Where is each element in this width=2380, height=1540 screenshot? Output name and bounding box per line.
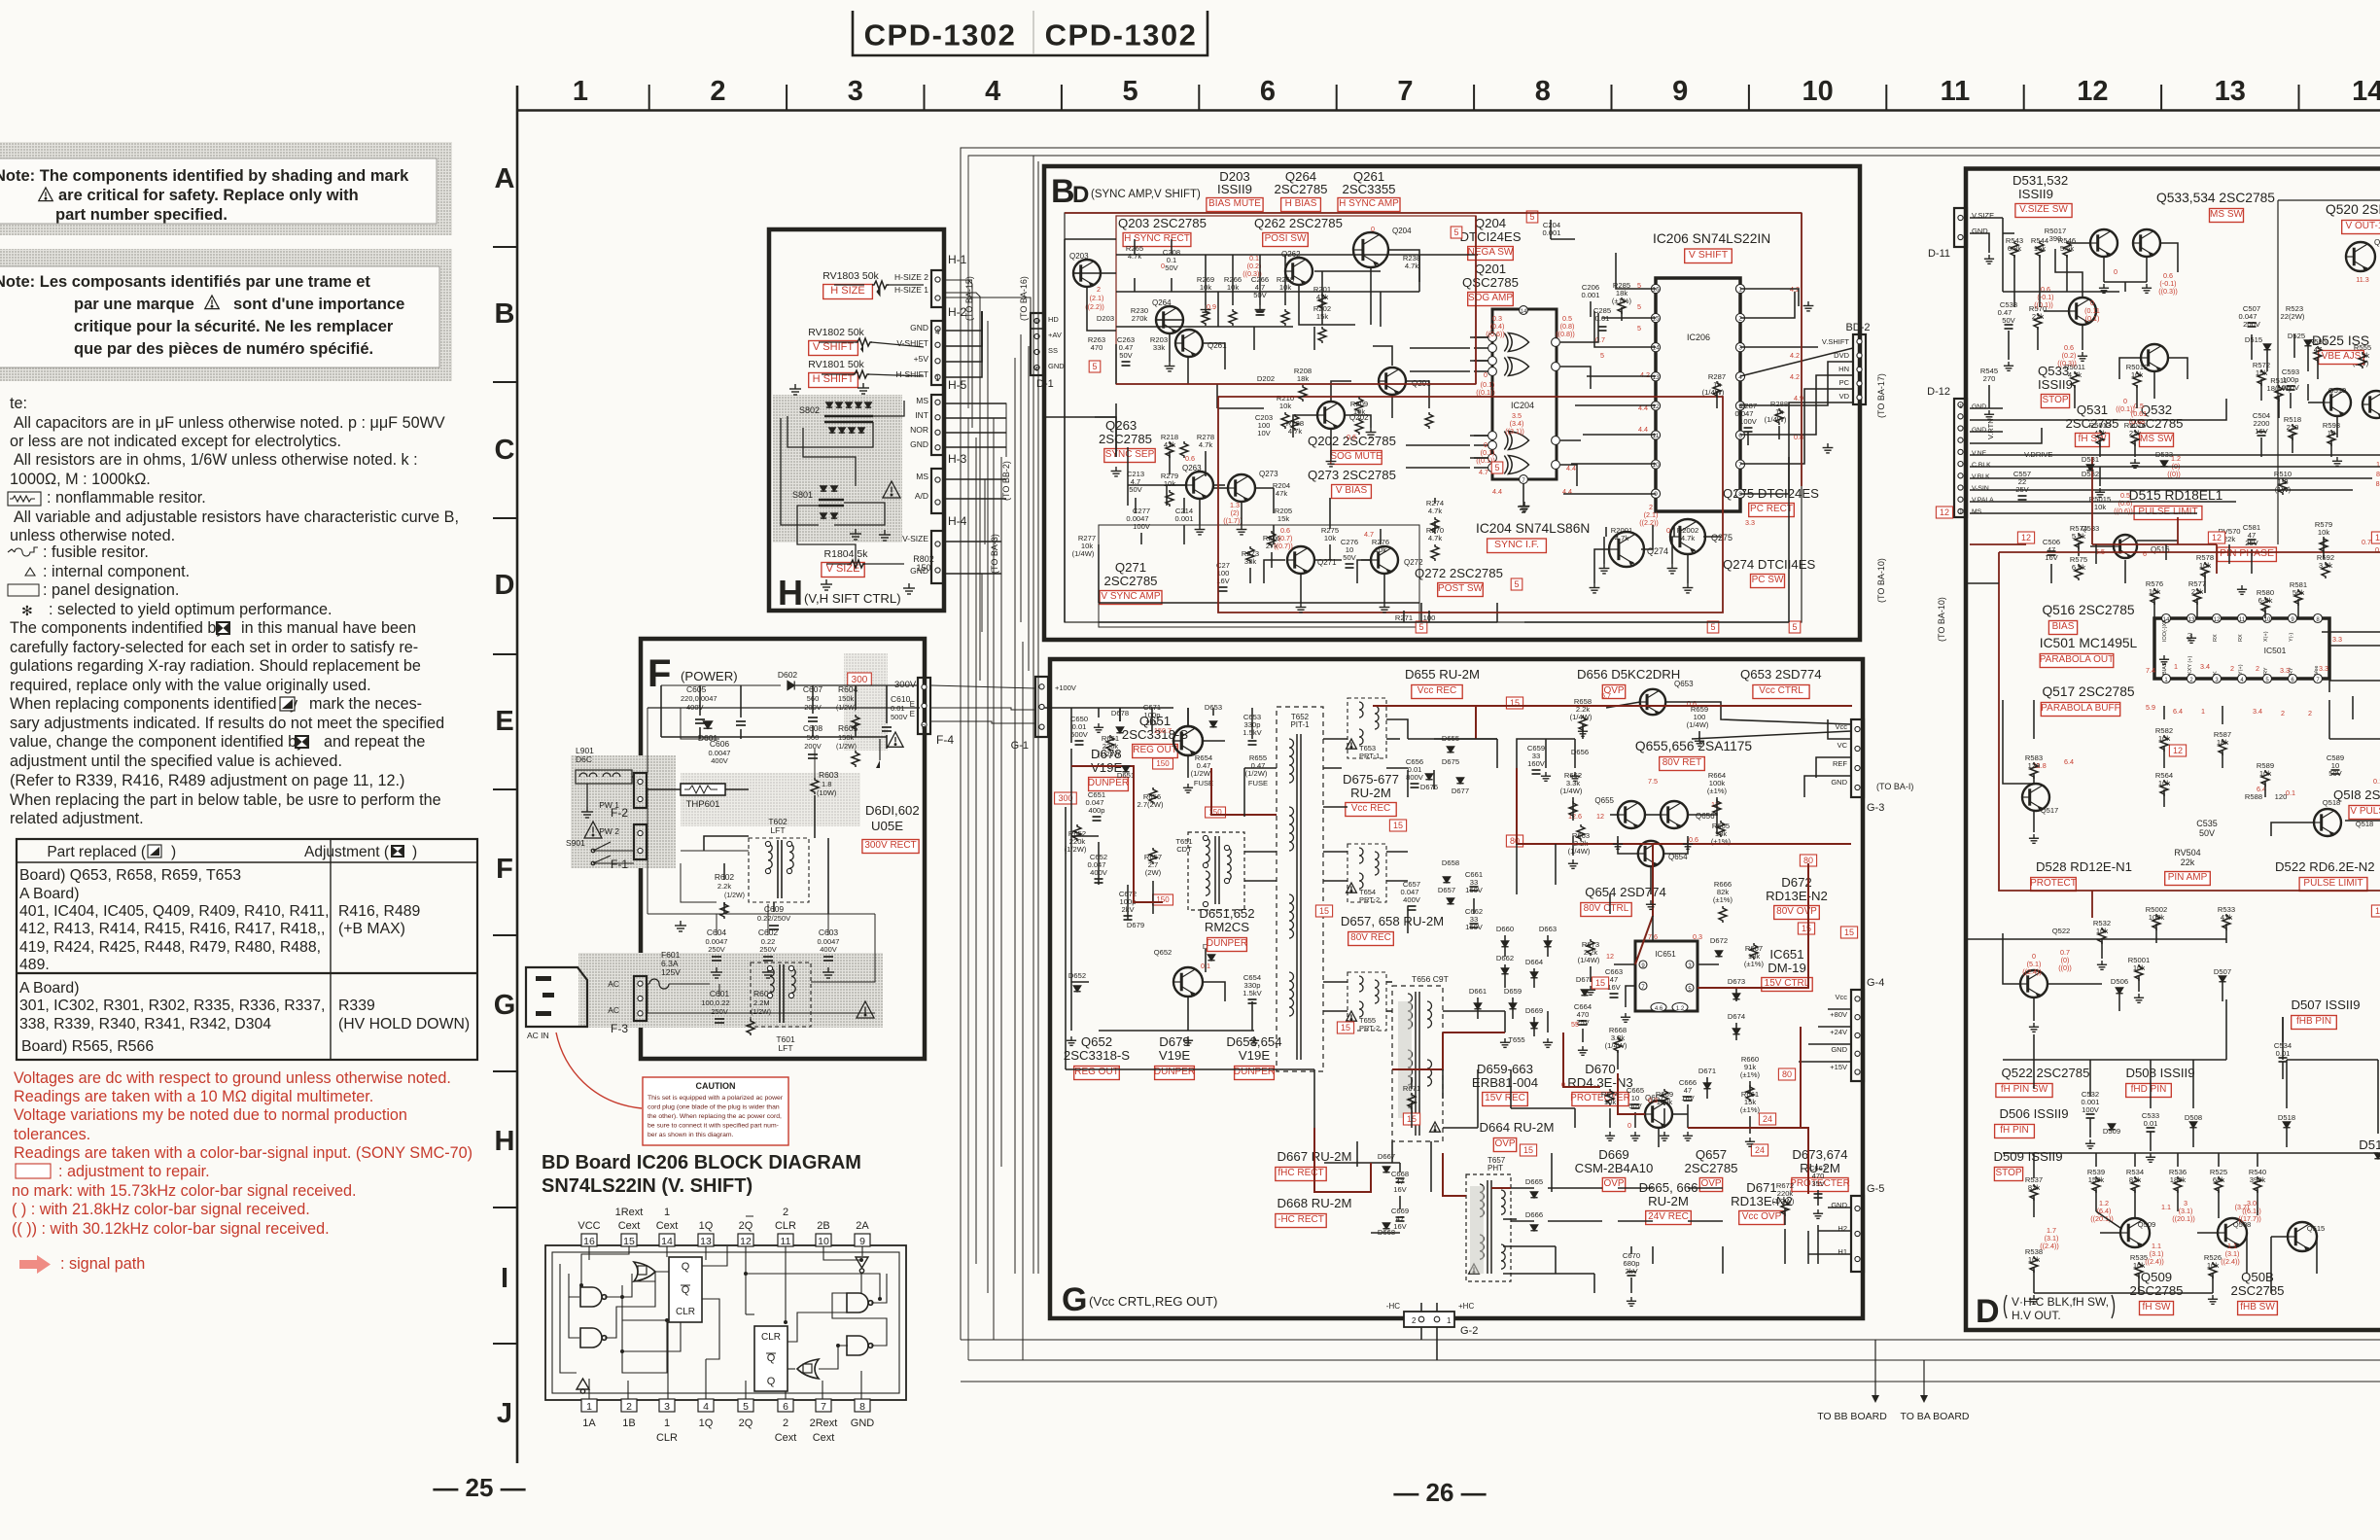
svg-text:+80V: +80V [1830, 1010, 1847, 1019]
svg-text:RV504: RV504 [2174, 848, 2200, 857]
svg-text:(3.7): (3.7) [2235, 1203, 2250, 1211]
IC206 OR gate 2 [797, 1359, 819, 1379]
svg-text:2: 2 [1412, 1316, 1417, 1325]
svg-text:401, IC404, IC405, Q409, R409,: 401, IC404, IC405, Q409, R409, R410, R41… [19, 903, 329, 920]
svg-text:V.SHIFT: V.SHIFT [1822, 337, 1849, 346]
svg-text:(1/4W): (1/4W) [1072, 549, 1095, 558]
svg-text:6: 6 [2143, 549, 2147, 558]
svg-text:no mark: with 15.73kHz color-b: no mark: with 15.73kHz color-bar signal … [12, 1182, 356, 1200]
svg-text:G-3: G-3 [1867, 802, 1884, 814]
svg-text:R339: R339 [338, 997, 375, 1014]
svg-text:2SC2785: 2SC2785 [2231, 1283, 2285, 1298]
svg-text:(1/4W): (1/4W) [1570, 713, 1592, 721]
svg-text:IC206: IC206 [1687, 332, 1710, 342]
svg-text:When replacing components iden: When replacing components identified by [10, 695, 298, 713]
svg-text:J: J [497, 1398, 512, 1429]
svg-text:DM-19: DM-19 [1767, 961, 1806, 975]
svg-text:B: B [1051, 173, 1075, 210]
svg-text:POST SW: POST SW [1438, 583, 1483, 594]
svg-text:D522 RD6.2E-N2: D522 RD6.2E-N2 [2275, 859, 2375, 874]
svg-text:GND: GND [910, 566, 928, 576]
svg-text:D202: D202 [1257, 374, 1275, 383]
svg-text:12: 12 [1940, 507, 1949, 517]
svg-text:AC: AC [608, 979, 619, 989]
svg-text:Readings are taken with a colo: Readings are taken with a color-bar-sign… [14, 1144, 472, 1162]
svg-text:SN74LS22IN (V. SHIFT): SN74LS22IN (V. SHIFT) [542, 1175, 752, 1197]
svg-text:250V: 250V [711, 1007, 728, 1016]
svg-text:: internal component.: : internal component. [43, 563, 190, 580]
svg-text:(0.1): (0.1) [2085, 314, 2100, 323]
svg-text:Q533: Q533 [2082, 524, 2100, 533]
svg-text:Q520: Q520 [2374, 238, 2380, 247]
svg-text:Q5I8 2SC27: Q5I8 2SC27 [2333, 787, 2380, 802]
IC206 inverter triangles [856, 1257, 868, 1273]
svg-text:1: 1 [586, 1401, 592, 1413]
svg-text:G: G [1062, 1281, 1087, 1318]
svg-text:V19E: V19E [1239, 1048, 1270, 1063]
svg-text:Cext: Cext [618, 1220, 641, 1232]
svg-text:CLR: CLR [761, 1332, 781, 1343]
svg-text:16: 16 [1652, 287, 1660, 294]
svg-text:0.001: 0.001 [1581, 291, 1599, 299]
svg-text:(TO BA-10): (TO BA-10) [1876, 558, 1886, 603]
svg-text:Q273: Q273 [1259, 470, 1278, 478]
svg-text:4.7: 4.7 [1364, 530, 1374, 539]
svg-text:(1/4W): (1/4W) [1765, 415, 1787, 424]
svg-text:1000Ω, M : 1000kΩ.: 1000Ω, M : 1000kΩ. [10, 471, 151, 488]
svg-text:VD: VD [1839, 392, 1850, 401]
svg-text:12: 12 [1596, 812, 1604, 821]
svg-text:H-SIZE 1: H-SIZE 1 [894, 285, 928, 295]
T653 PRT-1 transformer [1347, 698, 1386, 758]
F bottom wires [647, 1012, 875, 1014]
svg-text:Cext: Cext [813, 1432, 835, 1444]
svg-text:16: 16 [583, 1236, 595, 1247]
svg-text:1: 1 [1034, 318, 1038, 325]
svg-text:Y(+): Y(+) [2238, 664, 2244, 675]
svg-text:V-SIN: V-SIN [1972, 485, 1989, 492]
svg-text:10k: 10k [2094, 503, 2106, 511]
svg-text:2: 2 [2308, 709, 2312, 717]
svg-text:Q531: Q531 [2077, 402, 2108, 417]
svg-text:AC IN: AC IN [527, 1031, 549, 1040]
svg-text:CDT: CDT [1176, 845, 1192, 854]
G transformers [1277, 707, 1323, 1071]
svg-text:Cext: Cext [656, 1220, 679, 1232]
svg-text:RY: RY [2263, 667, 2269, 675]
svg-text:3: 3 [848, 76, 863, 107]
svg-text:4.4: 4.4 [1492, 487, 1502, 496]
svg-text:+HC: +HC [1458, 1302, 1474, 1311]
svg-text:QSC2785: QSC2785 [1462, 275, 1519, 290]
svg-text:5: 5 [1710, 622, 1715, 632]
svg-text:): ) [171, 844, 176, 860]
svg-text:V.RTN: V.RTN [1986, 418, 1995, 439]
svg-text:GND: GND [1972, 403, 1986, 410]
svg-text:D665: D665 [1525, 1177, 1543, 1186]
svg-text:15V REC: 15V REC [1485, 1093, 1525, 1103]
svg-text:301, IC302, R301, R302, R335,: 301, IC302, R301, R302, R335, R336, R337… [19, 997, 325, 1014]
svg-text:AC: AC [608, 1005, 619, 1015]
svg-text:BD Board IC206 BLOCK DIAGRAM: BD Board IC206 BLOCK DIAGRAM [542, 1152, 861, 1173]
warning triangle F bottom [857, 1001, 874, 1018]
svg-text:H SHIFT: H SHIFT [813, 373, 855, 385]
svg-text:VC: VC [1837, 741, 1848, 750]
svg-text:SOG MUTE: SOG MUTE [1330, 451, 1382, 462]
svg-text:24: 24 [1763, 1114, 1772, 1124]
svg-text:MS: MS [916, 472, 928, 481]
svg-text:All capacitors are in μF unles: All capacitors are in μF unless otherwis… [14, 414, 445, 432]
svg-text:1Rext: 1Rext [615, 1207, 644, 1218]
svg-text:par une marque: par une marque [74, 296, 194, 313]
D602 diode top [787, 682, 794, 690]
svg-text:R588: R588 [2245, 792, 2262, 801]
svg-text:MS: MS [916, 396, 928, 405]
svg-text:2: 2 [1097, 285, 1101, 294]
svg-text:G-4: G-4 [1867, 977, 1884, 989]
svg-text:— 25 —: — 25 — [433, 1473, 525, 1502]
svg-text:2Q: 2Q [739, 1417, 753, 1429]
svg-text:50V: 50V [2002, 316, 2015, 325]
svg-text:2SC3318-S: 2SC3318-S [1064, 1048, 1130, 1063]
svg-text:PIN PHASE: PIN PHASE [2220, 547, 2274, 559]
svg-text:12: 12 [740, 1236, 752, 1247]
D ground symbols [1984, 255, 1994, 263]
G extra wires [1066, 708, 1851, 1293]
svg-text:Q50B: Q50B [2241, 1270, 2274, 1284]
svg-text:D669: D669 [1598, 1147, 1629, 1162]
D resistors scatter [2011, 241, 2018, 258]
svg-text:3: 3 [664, 1401, 670, 1413]
svg-text:D508 ISSII9: D508 ISSII9 [2125, 1066, 2194, 1080]
svg-text:2.2k: 2.2k [717, 882, 731, 891]
svg-text:Q517: Q517 [2041, 806, 2059, 815]
svg-text:D507 ISSII9: D507 ISSII9 [2291, 997, 2360, 1012]
BD extra wires upper left [1095, 220, 1779, 622]
svg-text:(±1%): (±1%) [1713, 895, 1733, 904]
svg-text:8: 8 [1535, 76, 1551, 107]
svg-text:IC204 SN74LS86N: IC204 SN74LS86N [1476, 521, 1590, 536]
svg-text:10k: 10k [1164, 479, 1175, 488]
svg-text:55: 55 [1571, 1020, 1579, 1029]
svg-text:D673,674: D673,674 [1792, 1147, 1847, 1162]
svg-text:100V: 100V [1739, 417, 1758, 426]
svg-text:2SC2785: 2SC2785 [1104, 574, 1158, 588]
svg-text:1: 1 [1447, 1316, 1452, 1325]
svg-text:(1/2W): (1/2W) [724, 892, 745, 899]
IC206 bottom pin boxes [581, 1399, 597, 1412]
svg-text:4.4: 4.4 [1638, 425, 1648, 434]
svg-text:-HC: -HC [1386, 1302, 1400, 1311]
svg-text:the other). When replacing the: the other). When replacing the ac power … [647, 1113, 782, 1120]
svg-text:10k: 10k [2318, 528, 2329, 537]
svg-text:13: 13 [2375, 906, 2380, 916]
svg-text:Q657: Q657 [1696, 1147, 1727, 1162]
svg-text:D679: D679 [1127, 921, 1144, 929]
svg-text:R416, R489: R416, R489 [338, 903, 421, 920]
svg-text:V.PALA: V.PALA [1972, 497, 1994, 504]
svg-text:be sure to connect it with spe: be sure to connect it with specified par… [647, 1123, 779, 1130]
svg-text:All variable and adjustable re: All variable and adjustable resistors ha… [14, 508, 459, 526]
G dark red rails [1071, 706, 1852, 1196]
svg-text:A Board): A Board) [19, 980, 79, 997]
svg-text:RV1802 50k: RV1802 50k [808, 327, 864, 338]
connector BD-2 [1853, 334, 1866, 404]
svg-text:Q655,656 2SA1175: Q655,656 2SA1175 [1635, 739, 1753, 753]
svg-text:PARABOLA BUFF: PARABOLA BUFF [2041, 703, 2120, 714]
svg-text:RD13E-N2: RD13E-N2 [1766, 889, 1828, 903]
svg-text:D672: D672 [1710, 936, 1728, 945]
D601 diode [704, 721, 713, 728]
svg-text:V.SIZE SW: V.SIZE SW [2019, 204, 2068, 215]
svg-text:4.7k: 4.7k [1681, 534, 1696, 542]
G red marks boxed [1506, 697, 1522, 709]
svg-text:1Q: 1Q [699, 1220, 714, 1232]
red 300 mark G [1055, 792, 1077, 804]
svg-text:GND: GND [910, 323, 928, 332]
svg-text:H SIZE: H SIZE [830, 285, 864, 297]
title box CPD-1302 left [853, 11, 1207, 55]
svg-text:5: 5 [1600, 351, 1604, 360]
svg-text:3: 3 [1738, 345, 1742, 352]
signal path arrow symbol [19, 1255, 51, 1274]
svg-text:5: 5 [1637, 324, 1641, 332]
svg-text:GND: GND [1831, 1045, 1847, 1054]
svg-text:0: 0 [1161, 262, 1165, 270]
svg-text:G: G [494, 990, 516, 1021]
svg-text:MS: MS [1972, 508, 1982, 515]
svg-text:D663: D663 [1539, 925, 1557, 933]
svg-text:Q522 2SC2785: Q522 2SC2785 [2002, 1066, 2090, 1080]
svg-text:GND: GND [1048, 362, 1065, 370]
svg-text:3.3: 3.3 [2332, 635, 2342, 644]
connector F-1 [634, 824, 647, 859]
svg-text:(Refer to R339, R416, R489 adj: (Refer to R339, R416, R489 adjustment on… [10, 772, 404, 789]
svg-text:IC501 MC1495L: IC501 MC1495L [2040, 636, 2138, 650]
svg-text:( ) : with 21.8kHz color-ba: ( ) : with 21.8kHz color-bar signal rece… [12, 1201, 310, 1218]
adjustment-to-repair red box symbol [16, 1164, 51, 1178]
svg-text:Q274 DTCII4ES: Q274 DTCII4ES [1723, 557, 1815, 572]
block BD outline [1044, 166, 1860, 640]
svg-text:11: 11 [1653, 433, 1660, 439]
svg-text:11.8: 11.8 [2033, 761, 2046, 770]
svg-text:Q516 2SC2785: Q516 2SC2785 [2042, 603, 2134, 617]
svg-text:16V: 16V [1393, 1222, 1407, 1231]
svg-text:D651,652: D651,652 [1199, 906, 1254, 921]
svg-text:All resistors are in ohms, 1/6: All resistors are in ohms, 1/6W unless o… [14, 451, 418, 469]
svg-text:16V: 16V [1393, 1185, 1407, 1194]
svg-text:0: 0 [1371, 225, 1375, 233]
svg-text:S802: S802 [799, 405, 820, 415]
svg-text:fH SW: fH SW [2143, 1302, 2171, 1312]
svg-text:13: 13 [2215, 76, 2246, 107]
svg-text:5: 5 [1514, 579, 1519, 589]
svg-text:5: 5 [1637, 302, 1641, 311]
svg-text:0: 0 [2114, 267, 2117, 276]
svg-text:BD-2: BD-2 [1845, 322, 1870, 333]
svg-text:K: K [2213, 671, 2219, 675]
svg-text:338, R339, R340, R341, R342, D: 338, R339, R340, R341, R342, D304 [19, 1016, 271, 1032]
wires H to BA [944, 279, 972, 281]
svg-text:5: 5 [1792, 622, 1797, 632]
warning triangle H [883, 481, 900, 498]
svg-text:10k: 10k [1279, 402, 1291, 410]
IC206 diagram outer box [545, 1245, 906, 1400]
svg-text:14: 14 [661, 1236, 673, 1247]
svg-text:SS: SS [1048, 346, 1058, 355]
top ruler line [518, 109, 2380, 112]
svg-text:C610: C610 [891, 694, 911, 704]
block G outline [1050, 659, 1863, 1318]
svg-text:VCC: VCC [577, 1220, 600, 1232]
svg-text:D506: D506 [2111, 977, 2128, 986]
svg-text:D677: D677 [1452, 787, 1469, 795]
svg-text:CLR: CLR [656, 1432, 678, 1444]
svg-text:0.1: 0.1 [2286, 788, 2295, 797]
svg-text:PIT-1: PIT-1 [1290, 720, 1310, 729]
svg-text:11: 11 [781, 1236, 791, 1247]
svg-text:(TO BA-16): (TO BA-16) [1019, 276, 1029, 321]
svg-text:V19E: V19E [1159, 1048, 1190, 1063]
svg-text:3.4: 3.4 [2253, 707, 2262, 716]
svg-text:D675-677: D675-677 [1343, 772, 1399, 787]
IC206 FF box 1 [669, 1257, 702, 1322]
svg-text:que par des pièces de numéro s: que par des pièces de numéro spécifié. [74, 340, 373, 358]
svg-text:(Vcc CRTL,REG OUT): (Vcc CRTL,REG OUT) [1089, 1294, 1217, 1309]
BD transistors [1073, 260, 1101, 287]
svg-text:TO BA BOARD: TO BA BOARD [1901, 1411, 1970, 1422]
svg-text:15: 15 [1393, 821, 1403, 830]
BD inner boundary rects [1065, 213, 1802, 622]
outer thin frame 1 [961, 148, 2380, 301]
wires between H F and BD G blocks [931, 156, 1038, 1360]
svg-text:10: 10 [1959, 508, 1967, 515]
svg-text:1B: 1B [622, 1417, 635, 1429]
IC206 chip rect [1656, 278, 1740, 511]
svg-text:9: 9 [859, 1236, 865, 1247]
svg-text:12: 12 [2077, 76, 2108, 107]
svg-text:V SHIFT: V SHIFT [813, 341, 854, 353]
svg-text:D658: D658 [1442, 858, 1459, 867]
svg-text:T656 C9T: T656 C9T [1412, 974, 1449, 984]
svg-text:RM2CS: RM2CS [1205, 920, 1249, 934]
svg-text:1.5kV: 1.5kV [1242, 989, 1262, 997]
IC501 chip [2154, 618, 2329, 679]
svg-text:4.2: 4.2 [1790, 351, 1800, 360]
svg-text:2: 2 [2230, 664, 2234, 673]
svg-text:(1/2W): (1/2W) [836, 705, 857, 712]
svg-text:5.9: 5.9 [2146, 703, 2155, 712]
svg-text:Adjustment (: Adjustment ( [304, 844, 390, 860]
svg-text:D203: D203 [1097, 314, 1114, 323]
connector H-1 [931, 270, 944, 307]
svg-text:15: 15 [623, 1236, 635, 1247]
svg-text:D528 RD12E-N1: D528 RD12E-N1 [2036, 859, 2132, 874]
svg-text:(TO BA-10): (TO BA-10) [1937, 597, 1946, 642]
svg-text:Q204: Q204 [1392, 227, 1412, 235]
svg-text:400V: 400V [711, 756, 728, 765]
svg-text:(POWER): (POWER) [681, 669, 738, 683]
svg-text:adjustment until the specified: adjustment until the specified value is … [10, 752, 342, 770]
svg-text:+15V: +15V [1830, 1063, 1847, 1071]
svg-text:((1.7)): ((1.7)) [1223, 516, 1242, 525]
svg-text:Q204: Q204 [1475, 216, 1506, 230]
svg-text:80V REC: 80V REC [1350, 932, 1391, 943]
svg-text:300V RECT: 300V RECT [864, 840, 916, 851]
svg-text:fHB SW: fHB SW [2240, 1302, 2275, 1312]
svg-text:13: 13 [2188, 617, 2195, 623]
svg-text:H-SHIFT: H-SHIFT [895, 369, 928, 379]
svg-text:150k: 150k [838, 694, 855, 703]
svg-text:GND: GND [1831, 778, 1847, 787]
svg-text:gulations regarding X-ray r: gulations regarding X-ray radiation. Sho… [10, 657, 421, 675]
svg-text:fH PIN: fH PIN [2000, 1125, 2028, 1136]
svg-text:SYNC I.F.: SYNC I.F. [1494, 539, 1539, 550]
IC204 XOR gates [1504, 333, 1528, 352]
svg-text:1: 1 [573, 76, 588, 107]
svg-text:Q656: Q656 [1696, 812, 1715, 821]
svg-text:C535: C535 [2196, 819, 2218, 828]
svg-text:PIN AMP: PIN AMP [2168, 872, 2208, 883]
svg-text:D660: D660 [1496, 925, 1514, 933]
svg-text:: selected to yield optimum pe: : selected to yield optimum performance. [49, 601, 332, 618]
svg-text:0.01: 0.01 [2144, 1119, 2158, 1128]
svg-text:33k: 33k [1153, 343, 1165, 352]
svg-text:2SC2785: 2SC2785 [2066, 416, 2119, 431]
svg-text:D602: D602 [778, 670, 798, 680]
svg-text:CPD-1302: CPD-1302 [864, 18, 1017, 52]
svg-text:Q201: Q201 [1475, 262, 1506, 276]
svg-text:Voltage variations my be n: Voltage variations my be noted due to no… [14, 1106, 407, 1124]
svg-text:te:: te: [10, 395, 27, 412]
svg-text:Q263: Q263 [1182, 464, 1202, 472]
svg-text:Vcc CTRL: Vcc CTRL [1759, 685, 1803, 696]
svg-text:V BIAS: V BIAS [1336, 485, 1368, 496]
svg-text:0.22/250V: 0.22/250V [757, 914, 790, 923]
svg-text:0.3: 0.3 [1693, 932, 1702, 941]
caution box [643, 1077, 788, 1145]
warning triangle F-4 area [888, 732, 903, 747]
svg-text:D: D [1976, 1293, 2000, 1330]
svg-text:Q: Q [682, 1261, 690, 1273]
svg-text:((17.7)): ((17.7)) [2238, 1214, 2261, 1223]
svg-text:E: E [495, 706, 513, 737]
svg-text:H SYNC AMP: H SYNC AMP [1339, 198, 1399, 209]
svg-text:D664: D664 [1525, 958, 1543, 966]
svg-text:50V: 50V [1343, 553, 1356, 562]
svg-text:14: 14 [1521, 309, 1527, 315]
svg-text:CLR: CLR [676, 1307, 695, 1317]
svg-text:D666: D666 [1525, 1210, 1543, 1219]
svg-text:F-3: F-3 [611, 1022, 628, 1035]
svg-text:800V: 800V [1406, 773, 1424, 782]
svg-text:PULSE LIMIT: PULSE LIMIT [2138, 507, 2197, 517]
IC204 chip rect [1492, 309, 1557, 479]
red 150 marks [1153, 758, 1173, 769]
svg-text:DUNPER: DUNPER [1154, 1067, 1195, 1077]
svg-text:400V: 400V [1403, 895, 1421, 904]
svg-text:15: 15 [1523, 1145, 1533, 1155]
svg-text:2Q: 2Q [739, 1220, 753, 1232]
svg-text:4: 4 [935, 328, 940, 336]
svg-text:R1804 5k: R1804 5k [824, 548, 869, 560]
svg-text:2SC2785: 2SC2785 [2130, 1283, 2184, 1298]
svg-text:(0.68: (0.68 [2129, 417, 2145, 426]
svg-text:F-1: F-1 [611, 857, 628, 871]
svg-text:DUNPER: DUNPER [1207, 938, 1247, 949]
svg-text:THP601: THP601 [686, 799, 720, 810]
D transistors [2090, 229, 2117, 257]
